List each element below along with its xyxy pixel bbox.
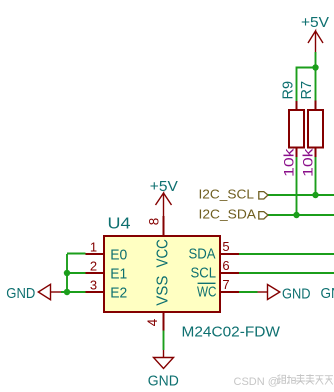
svg-text:U4: U4 [108,216,131,233]
svg-text:+5V: +5V [301,14,329,31]
svg-text:I2C_SDA: I2C_SDA [199,206,257,221]
svg-text:+5V: +5V [150,178,178,195]
svg-text:3: 3 [90,278,97,293]
svg-text:VSS: VSS [155,276,172,306]
svg-text:SCL: SCL [191,265,217,282]
svg-text:GND: GND [6,285,35,302]
svg-text:1: 1 [90,240,97,255]
svg-text:2: 2 [90,259,97,274]
svg-text:7: 7 [222,277,229,292]
svg-text:M24C02-FDW: M24C02-FDW [182,324,281,341]
svg-text:8: 8 [146,218,161,226]
svg-text:5: 5 [222,239,229,254]
svg-text:E0: E0 [110,247,127,264]
svg-text:VCC: VCC [155,239,172,267]
svg-text:4: 4 [145,318,160,326]
svg-text:SDA: SDA [189,246,216,263]
svg-text:10k: 10k [299,147,315,177]
svg-text:R7: R7 [298,81,315,100]
svg-text:E1: E1 [110,266,127,283]
svg-text:R9: R9 [280,81,297,100]
svg-text:GND: GND [321,285,334,302]
svg-text:WC: WC [197,284,217,301]
svg-text:GND: GND [148,372,179,389]
svg-text:GND: GND [282,285,311,302]
svg-text:E2: E2 [110,285,127,302]
svg-text:I2C_SCL: I2C_SCL [199,187,255,202]
svg-text:10k: 10k [280,147,296,177]
svg-text:6: 6 [222,258,229,273]
svg-text:CSDN @: CSDN @ [234,376,279,388]
